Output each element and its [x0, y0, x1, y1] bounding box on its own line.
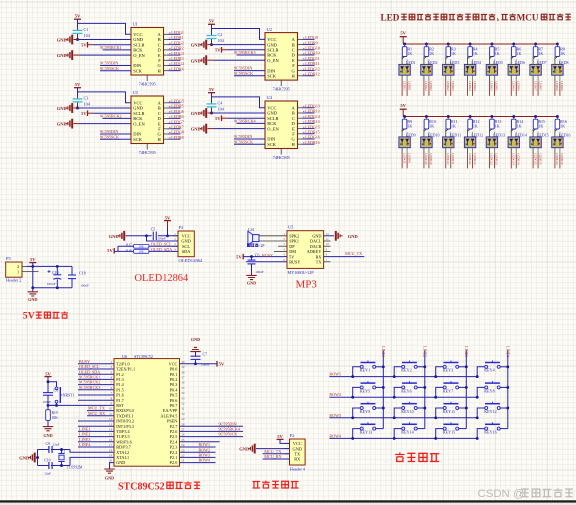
- wire key right: [500, 428, 508, 430]
- wire key left: [394, 367, 402, 377]
- wire VCC: [280, 439, 290, 443]
- LED LED1 dual-color: [399, 57, 416, 82]
- wire key left: [394, 387, 402, 397]
- junction: [434, 375, 437, 378]
- junction: [447, 43, 450, 46]
- wire RX: [263, 458, 290, 460]
- net label LEDG4: [169, 61, 184, 66]
- wire DIN: [234, 138, 265, 140]
- resistor R10 1K: [424, 117, 436, 130]
- LED LED2 dual-color: [421, 57, 438, 82]
- push button KEY8: [484, 381, 500, 393]
- junction: [476, 375, 479, 378]
- svg-text:GND: GND: [43, 433, 52, 438]
- resistor R18 10K: [126, 248, 149, 253]
- svg-text:5V: 5V: [400, 103, 406, 108]
- net label LEDR5 vertical: [494, 81, 498, 96]
- junction: [534, 115, 537, 118]
- wire key left: [477, 429, 485, 439]
- svg-text:LED: LED: [381, 12, 400, 22]
- ground: [57, 35, 73, 45]
- svg-text:10K: 10K: [52, 416, 59, 420]
- wire pin1 to gnd rail: [32, 266, 34, 287]
- wire 9C595DIN: [180, 425, 244, 427]
- wire key left: [353, 387, 361, 397]
- svg-text:5V: 5V: [81, 111, 87, 116]
- caption program download port: [252, 481, 298, 488]
- net label LEDG8 vertical: [555, 81, 559, 96]
- svg-text:28: 28: [181, 422, 185, 426]
- svg-text:TX: TX: [316, 260, 322, 265]
- svg-text:104: 104: [218, 106, 225, 111]
- wire TX stub: [324, 261, 331, 263]
- push button KEY5: [360, 381, 376, 393]
- net label LEDR16 vertical: [560, 153, 564, 168]
- svg-text:31: 31: [181, 407, 185, 411]
- LED LED4 dual-color: [464, 57, 481, 82]
- net label LEDG16 vertical: [555, 153, 559, 168]
- capacitor C19 100uF polarized: [47, 266, 62, 287]
- LED LED9 dual-color: [399, 129, 416, 154]
- wire pin 7: [78, 394, 114, 396]
- wire C8 bottom: [47, 395, 49, 405]
- caption 5V power input: [23, 311, 68, 322]
- capacitor C1 104: [73, 27, 91, 40]
- wire VCC: [212, 29, 266, 40]
- junction: [382, 365, 385, 368]
- svg-text:LEDG9: LEDG9: [402, 153, 406, 163]
- capacitor C10 22pF: [44, 458, 53, 475]
- svg-text:LEDR7: LEDR7: [538, 81, 542, 91]
- wire SCK: [100, 70, 131, 72]
- junction: [476, 416, 479, 419]
- power 5V tie SCLR: [215, 115, 227, 121]
- svg-text:GND: GND: [191, 111, 202, 116]
- svg-text:LEDR15: LEDR15: [538, 153, 542, 165]
- IC U6 STC89C52: [109, 354, 185, 466]
- junction: [194, 362, 197, 365]
- caption STC89C52 minimal system: [118, 481, 200, 492]
- svg-text:1K: 1K: [560, 123, 565, 128]
- svg-text:9C595DIN: 9C595DIN: [234, 66, 252, 71]
- svg-text:LEDR2: LEDR2: [429, 81, 433, 91]
- svg-text:KEY5: KEY5: [360, 388, 370, 393]
- svg-text:1K: 1K: [495, 51, 500, 56]
- wire 5V row: [243, 256, 287, 258]
- net label LEDR3 vertical: [451, 81, 455, 96]
- junction: [425, 115, 428, 118]
- junction: [506, 407, 509, 410]
- junction: [393, 396, 396, 399]
- svg-text:1K: 1K: [517, 51, 522, 56]
- junction: [166, 234, 169, 237]
- svg-text:KEY6: KEY6: [401, 388, 411, 393]
- junction: [534, 43, 537, 46]
- svg-text:LEDR14: LEDR14: [517, 153, 521, 165]
- svg-text:39: 39: [181, 365, 185, 369]
- svg-text:LEDR8: LEDR8: [171, 135, 183, 140]
- wire 9C595RCK4: [180, 430, 244, 432]
- svg-text:5V: 5V: [209, 18, 215, 23]
- svg-text:5V: 5V: [236, 254, 242, 259]
- power 5V tie SCLR: [81, 42, 93, 48]
- wire GND: [208, 112, 266, 114]
- wire 5V vertical: [211, 93, 213, 103]
- wire key right: [417, 386, 425, 388]
- resistor R9 1K: [402, 117, 412, 130]
- resistor R15 1K: [533, 117, 545, 130]
- junction: [476, 437, 479, 440]
- wire TX: [263, 453, 290, 455]
- svg-text:KEY12: KEY12: [484, 409, 497, 414]
- junction: [393, 375, 396, 378]
- net label LEDR6: [169, 114, 183, 119]
- svg-text:5V: 5V: [277, 434, 283, 439]
- net label LEDG7: [169, 119, 184, 124]
- net label LEDG16: [303, 135, 320, 140]
- svg-text:GND: GND: [28, 297, 37, 302]
- wire pin 2: [78, 368, 114, 370]
- svg-text:P3: P3: [179, 225, 184, 230]
- svg-text:LEDR9: LEDR9: [407, 153, 411, 163]
- svg-text:32: 32: [181, 402, 185, 406]
- svg-text:1K: 1K: [451, 123, 456, 128]
- wire key right: [459, 386, 467, 388]
- svg-text:LEDR8: LEDR8: [560, 81, 564, 91]
- header P2 Header 4: [284, 433, 306, 471]
- LED LED3 dual-color: [443, 57, 460, 82]
- wire key left: [353, 367, 361, 377]
- net label LEDG3 vertical: [446, 81, 450, 96]
- net label LEDG14: [303, 114, 320, 119]
- wire RCK: [237, 122, 266, 124]
- svg-text:12: 12: [326, 232, 330, 236]
- svg-text:LEDR13: LEDR13: [495, 153, 499, 165]
- svg-text:GND: GND: [116, 460, 125, 465]
- wire gnd node: [126, 235, 152, 237]
- wire button bottom: [48, 403, 57, 405]
- svg-text:LEDG11: LEDG11: [446, 153, 450, 165]
- svg-text:LEDR4: LEDR4: [473, 81, 477, 91]
- resistor R2 1K: [424, 44, 434, 57]
- svg-text:GND: GND: [105, 476, 114, 481]
- svg-text:1K: 1K: [517, 123, 522, 128]
- LED LED11 dual-color: [443, 129, 462, 154]
- resistor R11 1K: [446, 117, 458, 130]
- svg-text:KEY13: KEY13: [360, 430, 373, 435]
- junction: [351, 375, 354, 378]
- net label LEDG8: [169, 130, 184, 135]
- ground: [191, 40, 207, 50]
- svg-text:9C595RCK1: 9C595RCK1: [100, 45, 122, 50]
- svg-text:LEDR3: LEDR3: [451, 81, 455, 91]
- wire row 2: [329, 396, 477, 398]
- svg-text:1K: 1K: [538, 51, 543, 56]
- svg-text:R18: R18: [126, 248, 132, 252]
- wire key left: [353, 408, 361, 418]
- net label LEDR4 vertical: [473, 81, 477, 96]
- svg-text:C9: C9: [46, 442, 51, 446]
- LED LED13 dual-color: [486, 129, 505, 154]
- junction: [423, 386, 426, 389]
- svg-text:MCU_RX: MCU_RX: [88, 411, 105, 416]
- wire RCK: [103, 117, 132, 119]
- svg-text:LEDR16: LEDR16: [305, 140, 319, 145]
- LED LED14 dual-color: [508, 129, 527, 154]
- svg-text:LEDG12: LEDG12: [468, 153, 472, 165]
- svg-text:100nF: 100nF: [80, 283, 89, 287]
- net label LEDG15: [303, 124, 320, 129]
- wire row 3: [329, 417, 477, 419]
- svg-text:LEDG2: LEDG2: [424, 81, 428, 91]
- svg-text:C3: C3: [84, 95, 89, 100]
- wire key right: [459, 428, 467, 430]
- svg-text:38: 38: [181, 370, 185, 374]
- svg-text:LEDG10: LEDG10: [424, 153, 428, 165]
- ground crystal: [19, 453, 35, 463]
- svg-text:GND: GND: [247, 281, 256, 286]
- svg-text:LEDG16: LEDG16: [555, 153, 559, 165]
- wire key left: [436, 367, 444, 377]
- caption matrix keypad: [395, 453, 439, 462]
- junction: [512, 115, 515, 118]
- svg-text:O_EN: O_EN: [133, 121, 145, 126]
- wire pin 4: [78, 378, 114, 380]
- svg-text:104: 104: [218, 38, 225, 43]
- net label LEDG7 vertical: [533, 81, 537, 96]
- net label LEDR9: [303, 40, 317, 45]
- wire P2.4 stub: [180, 441, 220, 443]
- net label LEDR9 vertical: [407, 153, 411, 168]
- svg-text:GND: GND: [57, 122, 68, 127]
- junction: [47, 380, 50, 383]
- LED LED6 dual-color: [508, 57, 525, 82]
- svg-text:STC89C52: STC89C52: [118, 481, 165, 492]
- push button KEY4: [484, 361, 500, 373]
- svg-text:P2: P2: [290, 433, 295, 438]
- net label LEDG6: [169, 109, 184, 114]
- svg-text:LEDR4: LEDR4: [171, 66, 183, 71]
- junction: [506, 386, 509, 389]
- svg-text:35: 35: [181, 386, 185, 390]
- net label LEDR15: [303, 130, 319, 135]
- power 5V: [29, 257, 36, 262]
- title LED drive note: [381, 12, 571, 22]
- svg-text:9C595SCK: 9C595SCK: [100, 66, 119, 71]
- push button KEY10: [401, 402, 417, 414]
- svg-text:1K: 1K: [473, 51, 478, 56]
- header P3 OLED12864: [173, 225, 203, 263]
- wire 5V rail: [403, 116, 557, 118]
- wire SCLR: [228, 49, 266, 51]
- svg-text:1K: 1K: [407, 123, 412, 128]
- wire ROW3: [180, 456, 216, 458]
- wire crystal loop: [38, 450, 115, 466]
- LED LED12 dual-color: [464, 129, 483, 154]
- svg-text:C6: C6: [255, 252, 260, 257]
- svg-text:MCU: MCU: [517, 12, 539, 22]
- junction: [31, 286, 34, 289]
- svg-text:9C595SCK: 9C595SCK: [234, 139, 253, 144]
- wire SCLR: [228, 117, 266, 119]
- push button KEY7: [443, 381, 459, 393]
- net label LEDG13 vertical: [489, 153, 493, 168]
- power 5V: [164, 215, 171, 227]
- push button KEY14: [401, 422, 417, 434]
- net label LEDG4 vertical: [468, 81, 472, 96]
- junction: [76, 107, 79, 110]
- wire SPK2: [259, 235, 287, 237]
- wire to GND pin: [147, 236, 179, 241]
- svg-text:LEDG14: LEDG14: [512, 153, 516, 165]
- wire key right: [500, 386, 508, 388]
- push button KEY3: [443, 361, 459, 373]
- svg-text:MCU_RX: MCU_RX: [264, 454, 281, 459]
- svg-text:LINE3: LINE3: [464, 346, 469, 357]
- wire pin 11: [87, 415, 114, 417]
- wire key left: [436, 408, 444, 418]
- junction: [425, 43, 428, 46]
- svg-text:SCK: SCK: [133, 137, 143, 142]
- wire key right: [376, 428, 384, 430]
- wire pin 14: [78, 430, 114, 432]
- svg-text:KEY8: KEY8: [484, 388, 494, 393]
- svg-text:11.0592M: 11.0592M: [67, 466, 83, 470]
- junction: [465, 365, 468, 368]
- wire key right: [459, 366, 467, 368]
- net label LEDR10 vertical: [429, 153, 433, 168]
- svg-text:Header 2: Header 2: [6, 278, 21, 283]
- net label LEDR3: [169, 56, 183, 61]
- junction: [469, 43, 472, 46]
- wire BUSY: [246, 261, 287, 263]
- ground: [57, 103, 73, 113]
- net label LEDR11 vertical: [451, 153, 455, 168]
- wire key right: [500, 366, 508, 368]
- svg-text:74HC595: 74HC595: [139, 150, 157, 155]
- svg-text:5V: 5V: [165, 215, 171, 220]
- svg-text:10K: 10K: [139, 251, 144, 254]
- wire key right: [417, 366, 425, 368]
- svg-text:SCK: SCK: [267, 142, 277, 147]
- wire C6 to gnd: [251, 264, 253, 276]
- resistor R12 1K: [468, 117, 480, 130]
- LED LED7 dual-color: [530, 57, 547, 82]
- svg-text:U6: U6: [122, 354, 127, 359]
- wire key right: [417, 407, 425, 409]
- junction: [506, 365, 509, 368]
- junction: [393, 437, 396, 440]
- svg-text:5V: 5V: [215, 48, 221, 53]
- LED LED10 dual-color: [421, 129, 440, 154]
- ground: [104, 469, 114, 481]
- power 5V: [208, 87, 215, 93]
- net label LEDG1: [169, 30, 184, 35]
- wire O_EN: [74, 54, 132, 56]
- ground: [43, 427, 53, 439]
- svg-text:34: 34: [181, 391, 185, 395]
- svg-text:KEY16: KEY16: [484, 430, 497, 435]
- svg-text:-2P: -2P: [259, 244, 264, 248]
- net label LEDG10 vertical: [424, 153, 428, 168]
- svg-text:1K: 1K: [473, 123, 478, 128]
- junction: [447, 115, 450, 118]
- capacitor C18 100nF: [68, 266, 89, 287]
- resistor R16 1K: [555, 117, 567, 130]
- svg-text:LEDG1: LEDG1: [402, 81, 406, 91]
- wire pin 15: [78, 436, 114, 438]
- push button NRST1: [55, 387, 74, 403]
- wire pin 6: [78, 389, 114, 391]
- push button KEY12: [484, 402, 500, 414]
- svg-text:33: 33: [181, 396, 185, 400]
- svg-text:KEY15: KEY15: [443, 430, 456, 435]
- ground right: [336, 231, 359, 241]
- net label LEDG11 vertical: [446, 153, 450, 168]
- net label LEDR1 vertical: [407, 81, 411, 96]
- svg-text:MP3: MP3: [296, 279, 318, 291]
- wire row 4: [329, 437, 477, 439]
- svg-text:GND: GND: [191, 43, 202, 48]
- wire pin 13: [78, 425, 114, 427]
- svg-text:O_EN: O_EN: [267, 126, 279, 131]
- wire key left: [436, 387, 444, 397]
- junction: [512, 43, 515, 46]
- svg-text:1K: 1K: [538, 123, 543, 128]
- svg-text:GND: GND: [191, 337, 200, 342]
- junction: [556, 43, 559, 46]
- net label LEDR2 vertical: [429, 81, 433, 96]
- wire key left: [394, 429, 402, 439]
- wire top rail: [27, 265, 72, 267]
- net label LEDG12: [303, 66, 320, 71]
- svg-text:5V: 5V: [209, 87, 215, 92]
- junction: [250, 255, 253, 258]
- svg-text:37: 37: [181, 376, 185, 380]
- IC U5 MY1680U-12P: [283, 225, 329, 275]
- capacitor C4 104: [207, 100, 225, 113]
- junction: [434, 437, 437, 440]
- wire key left: [477, 408, 485, 418]
- net label LEDG9: [303, 35, 318, 40]
- net label LEDR7 vertical: [538, 81, 542, 96]
- wire bottom rail: [33, 287, 72, 289]
- crystal Y1 11.0592M: [58, 448, 83, 470]
- resistor R7 1K: [533, 44, 543, 57]
- svg-text:9C595SCK: 9C595SCK: [100, 134, 119, 139]
- power 5V tie SCLR: [215, 47, 227, 53]
- junction: [469, 115, 472, 118]
- net label LEDG6 vertical: [511, 81, 515, 96]
- svg-text:74HC595: 74HC595: [139, 81, 157, 86]
- resistor R4 1K: [468, 44, 478, 57]
- svg-text:SCK: SCK: [267, 74, 277, 79]
- svg-text:KEY10: KEY10: [401, 409, 414, 414]
- svg-text:LEDG4: LEDG4: [468, 81, 472, 91]
- svg-text:LINE4: LINE4: [79, 442, 90, 447]
- junction: [423, 365, 426, 368]
- svg-text:BUSY: BUSY: [289, 260, 300, 265]
- net label LEDR13: [303, 109, 319, 114]
- wire key right: [417, 428, 425, 430]
- wire DIN: [100, 65, 131, 67]
- wire SCLR: [94, 44, 132, 46]
- svg-text:U1: U1: [133, 22, 138, 27]
- net label LEDG9 vertical: [402, 153, 406, 168]
- push button KEY9: [360, 402, 376, 414]
- svg-text:LEDR10: LEDR10: [429, 153, 433, 165]
- power 5V tie SCLR: [81, 110, 93, 116]
